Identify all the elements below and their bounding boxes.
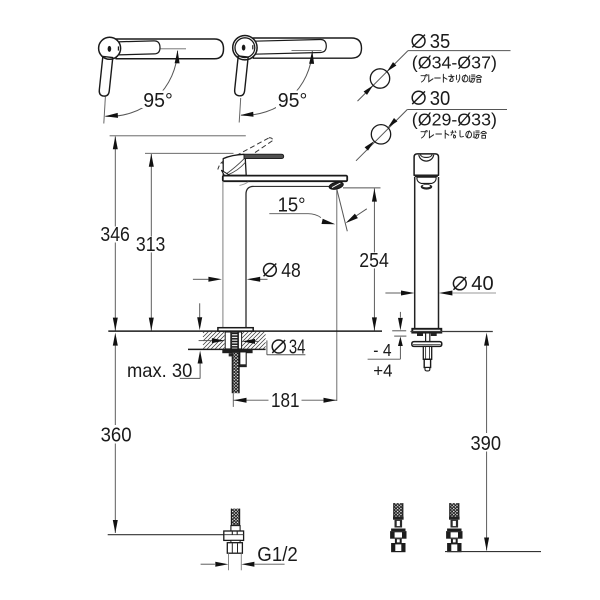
svg-text:95°: 95°	[143, 90, 173, 112]
dimension dia-34 arrows	[199, 340, 212, 342]
dimension G1/2 arrows	[201, 563, 215, 565]
extension line at spout outlet	[343, 187, 381, 189]
svg-text:+4: +4	[373, 360, 392, 380]
svg-text:181: 181	[271, 390, 300, 412]
dimension dia-48 arrows	[193, 278, 209, 280]
G1/2 hose end fitting	[231, 509, 239, 526]
dimension line 390	[484, 333, 489, 346]
bottom reference plane (right)	[445, 551, 541, 553]
handle 1: 95 degree swing arc with arrows	[105, 51, 177, 117]
label dia-40	[453, 277, 466, 290]
water stream direction line (15 deg)	[337, 190, 347, 232]
supply hose fitting (left)	[394, 503, 403, 517]
label 95-deg (1)	[142, 91, 175, 109]
svg-text:346: 346	[100, 224, 129, 246]
svg-text:- 4: - 4	[373, 340, 391, 360]
mounting washer plate	[222, 349, 252, 353]
label dia-48	[264, 264, 277, 277]
side view: threaded stub	[424, 359, 430, 367]
svg-text:max. 30: max. 30	[127, 360, 192, 382]
svg-text:40: 40	[471, 273, 493, 295]
handle 1 lever extension line	[104, 97, 106, 124]
handle top view 2 (lever and knob, double ring)	[253, 38, 361, 58]
braided supply hose	[232, 353, 239, 393]
side view: mounting stem	[425, 333, 427, 342]
body right edge with corner radius	[246, 186, 254, 330]
dimension line 254	[373, 188, 375, 330]
note: without-plate case (Japanese)	[421, 132, 425, 138]
spout arm underside	[254, 185, 330, 187]
svg-text:254: 254	[359, 250, 389, 272]
handle 2 reference centerline	[292, 50, 322, 52]
dimension dia-40 arrows	[385, 292, 401, 294]
mounting stud	[240, 352, 246, 367]
max.30 deck thickness arrows	[199, 303, 201, 317]
label 95-deg (2)	[276, 91, 309, 109]
counter deck bottom line	[188, 348, 266, 350]
side view: horseshoe washer	[412, 342, 442, 347]
side view: base flange	[412, 329, 441, 333]
hole callout circle 2 (diameter 30, without plate)	[356, 110, 407, 161]
svg-text:(Ø34-Ø37): (Ø34-Ø37)	[412, 53, 497, 73]
label 181	[269, 392, 302, 408]
threaded shank through deck hole	[225, 332, 242, 349]
svg-text:360: 360	[101, 425, 132, 447]
handle 2: 95 degree swing arc with arrows	[241, 51, 312, 115]
hole callout circle 1 (diameter 35, with plate)	[358, 51, 409, 102]
tolerance -4/+4 arrows	[392, 330, 406, 332]
svg-text:313: 313	[136, 234, 166, 256]
hose end extension line	[232, 393, 234, 407]
outlet vertical extension line	[336, 189, 338, 401]
bottom reference plane (left)	[108, 534, 225, 536]
stabilizer piece	[229, 353, 241, 356]
raised lever (dashed position)	[222, 138, 269, 164]
faucet base flange (front view)	[218, 328, 253, 331]
dimension line 346	[114, 137, 116, 331]
spout top plate	[223, 176, 347, 182]
label 346	[100, 227, 132, 243]
label dia-34	[272, 340, 285, 353]
label dia-35	[412, 35, 425, 48]
handle 1 reference centerline	[161, 48, 187, 50]
extension line at 313 height	[145, 152, 234, 154]
svg-text:(Ø29-Ø33): (Ø29-Ø33)	[412, 110, 497, 130]
side view: mounting nut	[423, 346, 431, 359]
label 254	[358, 252, 391, 268]
deck line (side view)	[410, 331, 492, 333]
side view: lever head	[414, 154, 438, 175]
extension line at 346 height	[110, 135, 246, 137]
svg-text:G1/2: G1/2	[257, 544, 298, 566]
handle 2 lever extension line	[239, 98, 241, 123]
svg-text:34: 34	[289, 337, 306, 359]
spout aerator (outlet)	[328, 181, 344, 191]
side view: body edges	[414, 177, 416, 328]
svg-text:48: 48	[281, 260, 301, 282]
dimension line 313	[150, 154, 152, 331]
side view: lever neck	[417, 177, 436, 183]
svg-text:30: 30	[430, 88, 451, 110]
body left edge	[222, 181, 224, 331]
handle top view 1 (lever and knob)	[116, 39, 224, 59]
label 313	[135, 237, 168, 253]
dimension line 181	[233, 399, 336, 401]
deck hatching right	[242, 332, 245, 335]
svg-text:35: 35	[430, 31, 451, 53]
svg-text:390: 390	[471, 433, 502, 455]
side view: clamp blocks	[417, 333, 423, 336]
label dia-30	[412, 91, 425, 104]
dimension line 360	[113, 333, 118, 346]
supply hose fitting (right)	[450, 503, 459, 517]
body shoulder shadow arc	[240, 182, 249, 186]
deck hatching left	[203, 332, 204, 333]
svg-text:95°: 95°	[278, 90, 308, 112]
side view: lever/body divider	[415, 175, 438, 177]
dia-34 label bracket	[266, 340, 268, 354]
counter deck top line	[108, 330, 382, 332]
note: with-plate case (Japanese)	[421, 76, 425, 82]
lever bar (front view, closed position)	[244, 154, 284, 158]
15 degree angle leader and arrows	[269, 214, 321, 218]
handle base block (front view)	[223, 154, 246, 175]
svg-text:15°: 15°	[278, 194, 306, 216]
